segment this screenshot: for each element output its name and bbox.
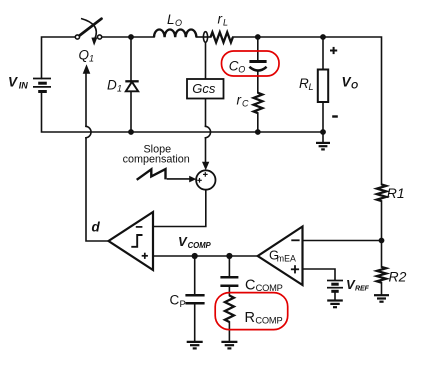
ground below RCOMP: [221, 342, 237, 349]
ground below CP: [187, 342, 203, 349]
red highlight box around RCOMP: [215, 293, 288, 330]
battery VIN: [33, 79, 51, 92]
svg-text:1: 1: [89, 53, 94, 63]
red highlight ellipse around CO: [222, 51, 280, 76]
wire inductor to rL gap: [196, 36, 210, 38]
junction CO top node: [255, 34, 261, 40]
svg-text:C: C: [170, 293, 180, 308]
slope arrow head: [189, 176, 196, 183]
comparator triangle: [109, 212, 154, 270]
junction rC bottom on ground bus: [255, 129, 261, 135]
wire GmEA minus input to rail junction: [303, 240, 382, 242]
svg-text:O: O: [238, 65, 245, 75]
svg-text:compensation: compensation: [123, 153, 190, 165]
wire R2 to ground: [381, 283, 383, 295]
wire CCOMP branch: [228, 256, 230, 277]
svg-text:1: 1: [117, 84, 122, 94]
minus sign VO: [332, 115, 338, 117]
svg-text:L: L: [309, 82, 314, 92]
plus sign top in summing circle: [197, 172, 207, 183]
GmEA triangle: [258, 227, 303, 286]
svg-text:V: V: [342, 75, 352, 90]
svg-text:V: V: [8, 74, 18, 89]
wire CO to rC: [257, 71, 259, 93]
wire rL to right rail top and down to R1: [233, 37, 382, 185]
GmEA minus sign: [291, 239, 299, 241]
wire RL bottom to ground: [322, 102, 324, 142]
wire CP branch: [194, 256, 196, 295]
svg-text:O: O: [175, 18, 182, 28]
wire summing circle to comparator minus input: [153, 190, 206, 227]
diode D1: [125, 81, 138, 91]
resistor rC: [254, 93, 263, 113]
svg-text:mEA: mEA: [277, 253, 296, 263]
comparator minus sign: [136, 226, 143, 228]
wire D1 branch vertical: [130, 37, 132, 81]
resistor rL: [211, 32, 233, 42]
junction RL top node: [320, 34, 326, 40]
svg-text:r: r: [218, 12, 223, 27]
hop over ground bus (d line): [86, 126, 91, 138]
svg-text:R1: R1: [387, 185, 405, 201]
switch actuation arc arrow: [81, 19, 96, 39]
wire GmEA plus input to VREF: [303, 269, 336, 280]
summing circle: [196, 170, 215, 189]
svg-text:COMP: COMP: [256, 283, 283, 293]
switch Q1 blade: [79, 19, 102, 36]
wire switch to inductor: [102, 36, 154, 38]
summing junction arrowhead (from Gcs): [202, 162, 209, 171]
capacitor CO (polarized): [249, 60, 266, 63]
svg-text:O: O: [351, 81, 358, 91]
hop over ground bus (Gcs line): [206, 126, 211, 138]
wire Gcs output to hop: [205, 99, 207, 127]
wire CO top: [257, 37, 259, 61]
resistor RCOMP: [225, 296, 234, 323]
svg-text:C: C: [245, 278, 255, 294]
svg-text:C: C: [242, 99, 249, 109]
wire VIN bottom + ground bus: [42, 92, 324, 133]
capacitor CCOMP: [220, 277, 238, 285]
junction R1-R2 feedback node: [379, 238, 385, 244]
svg-text:L: L: [167, 12, 175, 27]
resistor R1: [377, 185, 386, 202]
junction RL bottom on ground bus: [320, 129, 326, 135]
svg-text:C: C: [229, 59, 239, 74]
ground below R2: [374, 295, 389, 302]
svg-text:V: V: [178, 234, 188, 249]
svg-text:P: P: [180, 299, 186, 310]
ground below VREF: [327, 301, 343, 308]
svg-text:REF: REF: [355, 285, 370, 293]
junction CP tap on VCOMP net: [192, 253, 198, 259]
battery VREF: [327, 281, 343, 292]
slope compensation sawtooth: [137, 169, 166, 180]
inductor LO: [154, 29, 196, 37]
wire hop to summing arrow: [205, 138, 207, 162]
current sense loop: [203, 32, 207, 43]
svg-text:IN: IN: [19, 81, 29, 91]
hysteresis symbol: [131, 235, 142, 247]
wire VREF bottom to ground: [334, 291, 336, 300]
svg-text:R2: R2: [389, 269, 407, 285]
svg-text:L: L: [223, 18, 228, 28]
wire RL top: [322, 37, 324, 70]
GmEA plus sign: [291, 265, 299, 273]
junction D1 bottom on ground bus: [128, 129, 134, 135]
svg-text:COMP: COMP: [188, 241, 212, 250]
junction CCOMP tap on VCOMP net: [226, 253, 232, 259]
switch Q1 contact circles: [75, 35, 79, 39]
wire RCOMP to ground: [228, 322, 230, 342]
svg-text:Q: Q: [79, 47, 90, 62]
wire top-left from VIN top to switch: [42, 37, 76, 79]
svg-text:d: d: [92, 220, 101, 235]
svg-text:Gcs: Gcs: [192, 81, 216, 96]
wire Gcs sense line upper: [205, 42, 207, 79]
plus sign left in summing circle: [197, 179, 202, 181]
junction D1 top node: [128, 34, 134, 40]
ground below RL: [316, 143, 330, 150]
svg-text:D: D: [107, 78, 117, 93]
svg-text:COMP: COMP: [255, 316, 282, 326]
svg-text:r: r: [237, 93, 242, 108]
svg-text:R: R: [299, 76, 309, 91]
wire rC bottom: [257, 113, 259, 132]
resistor R2: [377, 267, 386, 283]
Gcs block: [187, 79, 224, 99]
d-line arrowhead at Q1: [83, 64, 91, 74]
resistor RL (box): [318, 70, 328, 103]
wire rail R1 to R2: [381, 201, 383, 267]
plus sign VO: [330, 47, 337, 54]
wire d: comparator output to switch arrow: [86, 138, 109, 241]
capacitor CP: [185, 295, 204, 303]
wire slope arrow line: [168, 178, 191, 180]
svg-text:R: R: [245, 310, 255, 326]
comparator plus sign: [142, 253, 148, 259]
wire comparator plus line VCOMP to GmEA apex: [153, 255, 258, 257]
